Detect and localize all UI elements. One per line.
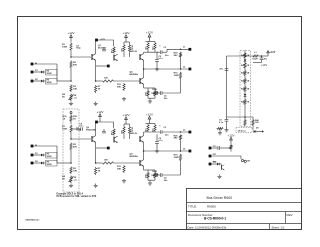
connector pad JBc xyxy=(31,162,34,165)
wire xyxy=(162,49,189,53)
resistor RB20 xyxy=(151,171,159,176)
trimmer RB4 xyxy=(62,175,77,183)
resistor RB2 xyxy=(70,143,78,151)
ground xyxy=(122,97,126,101)
svg-text:B-CS-R600-0-1: B-CS-R600-0-1 xyxy=(204,217,226,221)
wire chain top xyxy=(244,51,246,57)
svg-text:Bus Driver R600: Bus Driver R600 xyxy=(207,196,233,200)
resistor RA3 xyxy=(70,85,78,93)
diode D41 xyxy=(244,92,247,96)
resistor RB6 boxed xyxy=(44,160,57,166)
svg-text:10K: 10K xyxy=(104,78,108,80)
wire tee xyxy=(124,124,130,126)
connector pad P12 xyxy=(209,162,218,166)
ground xyxy=(69,184,73,188)
resistor R42 xyxy=(241,69,250,77)
connector pad JAa xyxy=(31,63,38,66)
svg-text:10K: 10K xyxy=(73,170,77,172)
caption note text xyxy=(57,193,97,199)
diode DA2 xyxy=(33,79,43,82)
svg-text:+12V: +12V xyxy=(96,110,103,114)
resistor R45 xyxy=(241,97,250,106)
svg-text:560R: 560R xyxy=(47,156,52,158)
resistor RB5 boxed xyxy=(44,152,57,158)
test pad TPB xyxy=(96,147,110,150)
wire out2 xyxy=(144,150,189,152)
power +12V out xyxy=(267,51,276,56)
wire chain bottom xyxy=(244,105,246,118)
capacitor CB1 xyxy=(102,129,106,133)
resistor RB3 xyxy=(70,167,78,175)
dashed label box 1N5xxx xyxy=(236,128,252,133)
svg-text:GM3-R600-drv: GM3-R600-drv xyxy=(25,219,40,222)
resistor RB14 xyxy=(153,124,157,132)
resistor RB16 xyxy=(154,172,158,179)
title block text xyxy=(188,196,294,229)
svg-text:BF459A: BF459A xyxy=(130,155,139,158)
resistor RA10 xyxy=(128,44,132,52)
wire tee xyxy=(124,42,130,44)
resistor RB8 xyxy=(111,129,116,136)
power +12V xyxy=(122,31,129,42)
svg-text:10K: 10K xyxy=(122,130,124,134)
diode DA1 xyxy=(33,70,43,73)
resistor RB13 xyxy=(146,124,150,132)
ground xyxy=(148,181,152,185)
power rail pad xyxy=(95,39,105,42)
wire xyxy=(124,134,130,139)
power rail pad xyxy=(95,121,98,124)
wire rail xyxy=(98,122,114,128)
svg-text:39K: 39K xyxy=(117,168,121,170)
svg-text:+12V: +12V xyxy=(146,31,153,35)
transistor QB3 xyxy=(130,130,144,142)
diode DB2 xyxy=(33,161,43,164)
capacitor C32 xyxy=(219,117,228,128)
test pad TPA xyxy=(96,65,110,68)
connector pad P11 xyxy=(209,154,218,157)
capacitor CB8 xyxy=(71,124,84,131)
resistor RB12 series xyxy=(96,160,140,165)
svg-text:+12V: +12V xyxy=(227,134,234,138)
resistor RA1 xyxy=(62,43,72,52)
node connector circle xyxy=(70,112,72,116)
resistor RA6 boxed xyxy=(44,78,57,84)
svg-text:100K: 100K xyxy=(62,46,68,48)
resistor RB0 xyxy=(63,115,78,122)
output pad PB2 xyxy=(183,148,191,152)
wire main right feed xyxy=(227,56,253,117)
resistor RA8 xyxy=(111,47,116,54)
resistor RA5 boxed xyxy=(44,69,57,75)
wire tee xyxy=(146,123,156,126)
svg-text:750p: 750p xyxy=(76,48,81,50)
wire xyxy=(180,58,182,69)
wire xyxy=(70,69,72,82)
ground xyxy=(69,102,73,106)
capacitor C30 xyxy=(220,68,229,71)
resistor RA2 xyxy=(70,61,78,69)
wire xyxy=(229,148,231,152)
svg-text:PN2222A: PN2222A xyxy=(86,128,96,131)
resistor R48 xyxy=(217,127,224,131)
wire rail xyxy=(98,40,114,46)
resistor R40 xyxy=(241,53,250,59)
svg-text:+12V: +12V xyxy=(122,113,129,117)
output pad PA1 xyxy=(183,47,191,51)
power +12V xyxy=(227,134,234,145)
wire bottom rail xyxy=(227,117,254,119)
resistor R41 xyxy=(241,63,250,69)
wire collector xyxy=(95,40,97,54)
wire tee xyxy=(146,41,156,44)
svg-text:1K: 1K xyxy=(98,170,101,172)
diode D40 xyxy=(244,59,247,62)
wire xyxy=(70,51,72,58)
jack circles xyxy=(241,159,251,162)
wire emitter xyxy=(144,166,155,172)
resistor RB7 xyxy=(95,167,102,175)
resistor R46 xyxy=(252,119,260,126)
power +12V xyxy=(96,110,103,122)
resistor RA16 xyxy=(154,90,158,97)
resistor RA9 xyxy=(122,44,126,52)
wire out2 xyxy=(144,68,189,70)
wire xyxy=(143,142,145,151)
svg-text:100R: 100R xyxy=(174,75,179,77)
wire input join xyxy=(57,146,71,163)
svg-text:39K: 39K xyxy=(117,86,121,88)
diode D42 out xyxy=(253,126,264,133)
svg-text:REV:: REV: xyxy=(287,213,294,217)
capacitor CA0 label xyxy=(76,45,81,50)
svg-text:47K: 47K xyxy=(73,63,77,66)
wire xyxy=(33,145,57,147)
svg-text:+12V: +12V xyxy=(67,31,74,35)
svg-text:2K: 2K xyxy=(62,96,65,98)
svg-text:+12V: +12V xyxy=(122,31,129,35)
wire xyxy=(143,60,145,69)
wire emitter xyxy=(95,142,97,163)
resistor RB19 xyxy=(174,154,182,161)
ground xyxy=(155,67,159,71)
diode D43 xyxy=(211,162,219,166)
svg-text:+12V: +12V xyxy=(261,63,268,67)
resistor RB11 xyxy=(117,165,125,173)
connector pad P10 xyxy=(209,146,218,149)
svg-text:1N 5xxx: 1N 5xxx xyxy=(238,130,247,132)
resistor RA11 xyxy=(117,83,125,91)
svg-text:750p: 750p xyxy=(76,130,81,132)
svg-text:47K: 47K xyxy=(73,145,77,148)
connector pad JAc xyxy=(31,80,34,83)
svg-text:1K: 1K xyxy=(73,118,76,120)
diode DB1 xyxy=(33,153,43,156)
svg-text:100R: 100R xyxy=(174,157,179,159)
capacitor CB3 electrolytic xyxy=(159,124,169,136)
resistor RA19 xyxy=(174,72,182,79)
capacitor CA5 decoupling xyxy=(155,52,163,67)
svg-text:560R: 560R xyxy=(47,73,52,75)
capacitor CA3 electrolytic xyxy=(159,45,169,57)
capacitor CB5 decoupling xyxy=(155,134,163,149)
wire base1 xyxy=(71,138,91,140)
wire xyxy=(148,97,155,100)
transistor QB2 xyxy=(114,136,118,143)
svg-text:+12V: +12V xyxy=(146,113,153,117)
svg-text:10R: 10R xyxy=(146,174,148,178)
wire xyxy=(33,63,57,65)
capacitor CA1 xyxy=(102,47,106,51)
output pad PB1 xyxy=(183,129,191,133)
wire collector rail xyxy=(144,132,161,134)
transistor QA4 xyxy=(130,69,144,84)
dashed variant outline box xyxy=(63,109,79,192)
wire xyxy=(180,161,182,175)
connector pad JAb xyxy=(31,71,34,74)
dashed regulator chain box xyxy=(240,51,251,127)
transistor QA2 xyxy=(114,54,118,61)
svg-text:+12V: +12V xyxy=(270,52,276,54)
power +12V xyxy=(146,113,153,124)
svg-text:10K: 10K xyxy=(255,122,259,124)
capacitor C31 electrolytic xyxy=(257,56,268,63)
resistor RB15 xyxy=(146,172,150,179)
resistor RB9 xyxy=(122,126,126,134)
connector pad JBb xyxy=(31,154,34,157)
svg-text:560R: 560R xyxy=(47,82,52,84)
ground xyxy=(218,131,222,135)
svg-text:0.1u: 0.1u xyxy=(219,122,224,124)
trimmer RA4 xyxy=(62,93,77,101)
output pad PA2 xyxy=(183,66,191,70)
resistor RA7 xyxy=(95,85,102,93)
svg-text:100R: 100R xyxy=(152,89,157,91)
svg-text:10K: 10K xyxy=(73,88,77,90)
svg-text:TITLE:: TITLE: xyxy=(188,205,197,209)
title block frame xyxy=(187,189,302,230)
ground xyxy=(122,179,126,183)
resistor R43 xyxy=(241,76,250,84)
wire xyxy=(180,140,182,151)
connector pad JBa xyxy=(31,145,38,148)
ground xyxy=(94,102,98,106)
ground xyxy=(94,184,98,188)
svg-text:set: set xyxy=(74,96,77,99)
page border frame xyxy=(18,17,302,230)
capacitor CB0 label xyxy=(76,127,81,132)
ground xyxy=(148,99,152,103)
wire xyxy=(70,151,72,164)
svg-text:10R: 10R xyxy=(146,92,148,96)
wire xyxy=(148,179,155,182)
svg-text:1K: 1K xyxy=(98,88,101,90)
wire xyxy=(211,156,241,159)
capacitor C33 xyxy=(211,146,229,150)
resistor R49 xyxy=(230,145,232,152)
transistor QB4 xyxy=(130,151,144,166)
resistor RB18 xyxy=(174,135,182,141)
resistor RA14 xyxy=(153,42,157,50)
svg-text:BD139: BD139 xyxy=(130,51,138,53)
resistor R47 xyxy=(244,117,246,126)
resistor RA13 xyxy=(146,42,150,50)
power +12V xyxy=(146,31,153,42)
inductor L1 xyxy=(252,52,259,61)
resistor RA18 xyxy=(174,52,182,58)
svg-text:100R: 100R xyxy=(152,171,157,173)
transistor QA3 xyxy=(130,48,144,60)
svg-text:Sheet: 1/1: Sheet: 1/1 xyxy=(272,225,285,229)
wire collector xyxy=(95,122,97,136)
svg-text:PCB version for SDL variant is: PCB version for SDL variant is D7k xyxy=(57,195,97,198)
svg-text:R6500: R6500 xyxy=(207,205,216,209)
wire xyxy=(162,131,189,133)
svg-text:10K: 10K xyxy=(104,160,108,162)
resistor RB1 xyxy=(62,125,72,134)
capacitor CA4 xyxy=(159,91,181,100)
wire xyxy=(180,79,182,93)
capacitor CB4 xyxy=(159,173,181,182)
resistor RA12 series xyxy=(96,78,140,83)
transistor Q10 xyxy=(220,164,225,170)
resistor RA15 xyxy=(146,90,150,97)
ground xyxy=(224,128,228,132)
svg-text:2K: 2K xyxy=(62,178,65,180)
margin document id text xyxy=(25,219,40,222)
svg-text:BF459A: BF459A xyxy=(130,73,139,76)
wire xyxy=(70,122,72,124)
wire emitter xyxy=(144,84,155,90)
resistor RB10 xyxy=(128,126,132,134)
wire emitter xyxy=(95,60,97,81)
wire xyxy=(259,55,268,57)
svg-text:Date: 11/JAN/2012 09h39m33s: Date: 11/JAN/2012 09h39m33s xyxy=(188,225,227,229)
resistor R44 xyxy=(241,84,250,92)
wire collector rail xyxy=(144,50,161,52)
svg-text:set: set xyxy=(74,178,77,181)
wire xyxy=(70,133,72,140)
resistor RA20 xyxy=(151,89,159,94)
wire input join xyxy=(57,64,71,81)
wire base1 xyxy=(71,56,91,58)
transistor QB1 xyxy=(86,127,96,142)
wire +12V net stub xyxy=(253,63,267,67)
power +12V xyxy=(122,113,129,124)
svg-text:10K: 10K xyxy=(122,48,124,52)
wire xyxy=(124,52,130,57)
svg-text:BD139: BD139 xyxy=(130,133,138,135)
ground xyxy=(217,175,221,179)
ground xyxy=(155,149,159,153)
transistor QA1 xyxy=(92,45,107,60)
svg-text:560R: 560R xyxy=(47,164,52,166)
power +12V VA1 xyxy=(67,31,74,42)
